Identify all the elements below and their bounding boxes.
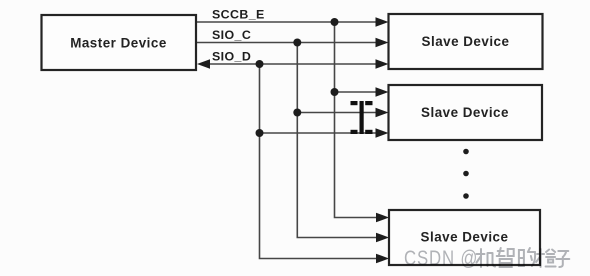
arrowhead into slave2 SIO_C <box>376 108 389 118</box>
svg-text:Slave Device: Slave Device <box>421 105 509 120</box>
svg-text:Slave Device: Slave Device <box>422 34 510 49</box>
arrowhead into slave1 SIO_D <box>376 59 389 69</box>
wire vertical bus SIO_C <box>297 43 378 238</box>
ellipsis dot 3 <box>463 193 469 199</box>
svg-text:SIO_C: SIO_C <box>212 28 251 42</box>
slave device 1 box <box>389 14 543 69</box>
arrowhead into slave3 SCCB_E <box>376 213 389 223</box>
junction dot SIO_C top <box>293 39 301 47</box>
junction dot SCCB_E slave2 <box>331 88 339 96</box>
wire branch SCCB_E to slave 2 <box>335 91 379 93</box>
watermark glyph zi <box>556 251 569 267</box>
watermark glyph zhi <box>497 248 514 267</box>
slave device 2 box <box>389 85 543 140</box>
wire vertical bus SIO_D <box>260 64 379 259</box>
svg-text:Slave Device: Slave Device <box>421 230 509 245</box>
slave device 3 box <box>389 210 540 265</box>
junction dot SCCB_E top <box>331 18 339 26</box>
svg-text:Master Device: Master Device <box>70 36 167 51</box>
arrowhead into slave2 SIO_D <box>376 128 389 138</box>
svg-text:SIO_D: SIO_D <box>212 49 251 63</box>
wire vertical bus SCCB_E <box>335 22 379 218</box>
ellipsis dot 2 <box>463 171 469 177</box>
arrowhead into slave1 SCCB_E <box>376 17 389 27</box>
wire branch SIO_C to slave 2 <box>297 112 378 114</box>
ellipsis dot 1 <box>463 149 469 155</box>
arrowhead into slave2 SCCB_E <box>376 87 389 97</box>
arrowhead into slave3 SIO_D <box>376 254 389 264</box>
watermark CJK glyphs drawn as strokes <box>477 248 570 267</box>
wire SCCB_E horizontal <box>196 21 378 23</box>
arrowhead into slave3 SIO_C <box>376 233 389 243</box>
watermark glyph cheng <box>536 249 556 267</box>
master device box <box>42 15 197 70</box>
junction dot SIO_C slave2 <box>293 109 301 117</box>
junction dot SIO_D slave2 <box>256 129 264 137</box>
I-beam break symbol <box>351 101 373 134</box>
watermark glyph de <box>519 248 535 266</box>
watermark glyph ji <box>477 249 496 267</box>
wire SIO_D horizontal <box>208 63 378 65</box>
wire branch SIO_D to slave 2 <box>260 132 379 134</box>
junction dot SIO_D top <box>256 60 264 68</box>
svg-text:CSDN @: CSDN @ <box>404 247 478 270</box>
watermark CSDN text <box>404 247 569 270</box>
wire SIO_C horizontal <box>196 42 378 44</box>
svg-text:SCCB_E: SCCB_E <box>212 7 265 21</box>
arrowhead into slave1 SIO_C <box>376 38 389 48</box>
arrowhead into master SIO_D (left) <box>197 59 210 69</box>
